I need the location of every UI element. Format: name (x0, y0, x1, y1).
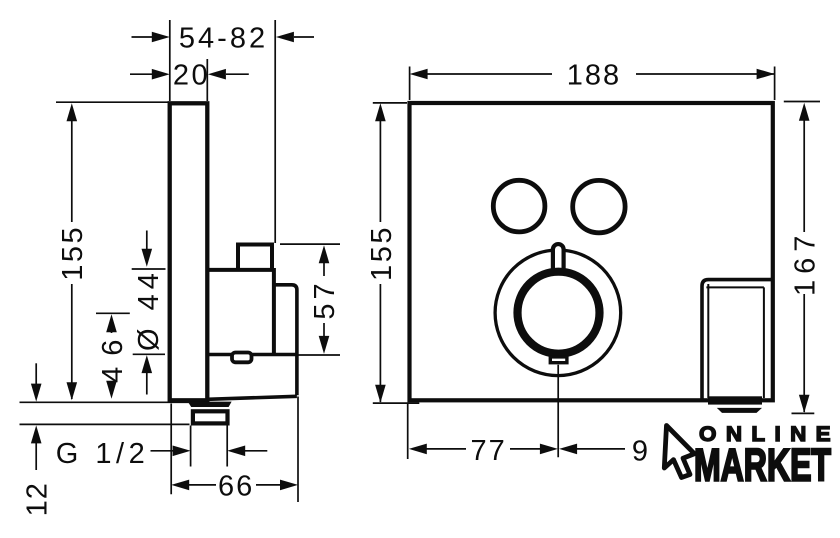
body back hump (276, 285, 297, 395)
dim 155 left (56, 101, 169, 103)
dim 155 front (373, 102, 407, 104)
front panel (410, 103, 773, 400)
svg-text:Ø 44: Ø 44 (133, 268, 165, 351)
svg-text:155: 155 (366, 225, 398, 281)
svg-text:20: 20 (173, 60, 210, 92)
thermostat dial outer (495, 250, 621, 376)
dim G 1/2 (190, 426, 192, 467)
svg-text:9: 9 (632, 435, 648, 467)
svg-text:54-82: 54-82 (179, 22, 268, 54)
svg-text:167: 167 (790, 230, 822, 296)
dim diam 44 (132, 268, 166, 270)
body bottom edge (208, 396, 297, 399)
label diam 44 (133, 268, 165, 351)
right select button (573, 180, 625, 232)
shower holder front view (702, 280, 773, 400)
label 167 (790, 230, 822, 296)
dim 188 (409, 67, 411, 101)
dim 66 (170, 404, 172, 495)
dim 167 (784, 101, 820, 103)
dim 57 (280, 243, 340, 245)
svg-text:G 1/2: G 1/2 (56, 438, 149, 470)
label 155 left (57, 225, 89, 281)
svg-text:46: 46 (97, 329, 129, 383)
wall line (20, 401, 210, 403)
wall plate side view (170, 103, 208, 400)
dim 46 (96, 312, 130, 314)
svg-text:77: 77 (470, 435, 506, 467)
body mid line (207, 353, 297, 356)
logo cursor (664, 426, 694, 478)
label 12 (22, 482, 54, 516)
dim 54-82 (169, 20, 171, 101)
svg-text:155: 155 (57, 225, 89, 281)
svg-text:66: 66 (218, 470, 254, 502)
dial notch (553, 244, 564, 271)
G1/2 nut (193, 411, 228, 423)
label 46 (97, 329, 129, 383)
dial centerline (557, 365, 559, 458)
G1/2 flange (188, 402, 232, 407)
dim 12 (35, 363, 37, 385)
svg-text:57: 57 (309, 279, 341, 319)
lower wall line (20, 423, 190, 425)
dial inner ring (518, 272, 600, 354)
label 57 (309, 279, 341, 319)
body top step line (207, 268, 274, 272)
svg-text:MARKET: MARKET (694, 440, 831, 491)
select button box (top step) (238, 245, 272, 270)
svg-text:12: 12 (22, 482, 54, 516)
dim 77 (407, 404, 409, 460)
handle front face (272, 268, 276, 355)
dim 9 (559, 444, 577, 455)
dim 20 (206, 59, 208, 101)
holder tab side view (232, 353, 252, 363)
left select button (493, 180, 545, 232)
svg-text:188: 188 (567, 60, 621, 92)
holder foot (708, 396, 762, 404)
label 155 front (366, 225, 398, 281)
dial bottom tab (550, 357, 567, 363)
